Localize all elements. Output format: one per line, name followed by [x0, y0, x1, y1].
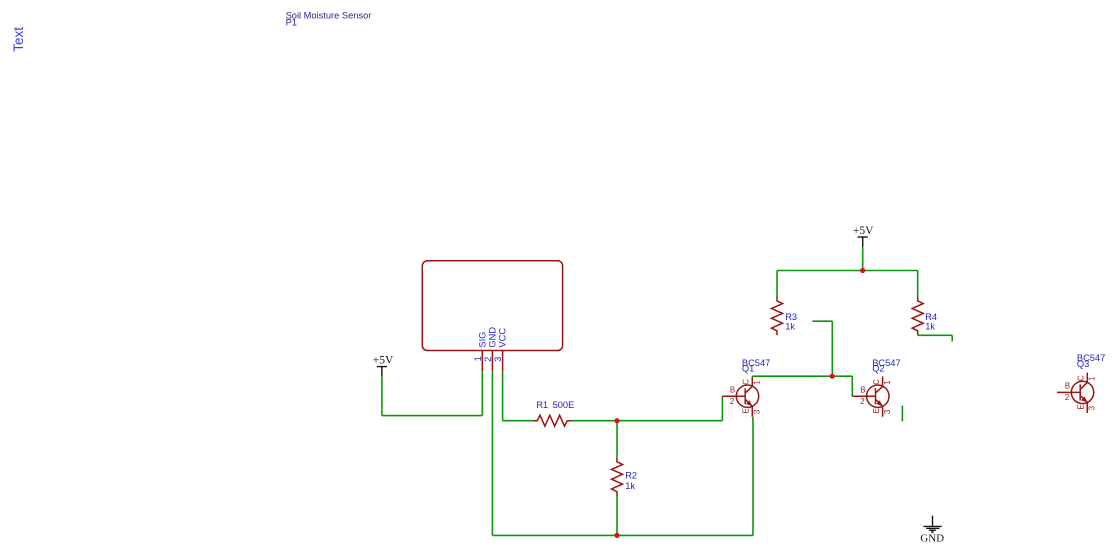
svg-text:C: C: [1077, 375, 1086, 381]
wire isolated segment right of Q2: [901, 406, 903, 422]
transistor Q3: [1057, 373, 1094, 413]
wire rail to Q1 emitter: [752, 417, 754, 536]
wire Q1 collector horizontal: [752, 375, 852, 377]
svg-text:1: 1: [753, 380, 762, 384]
wire R4 top: [917, 271, 919, 297]
svg-text:R4: R4: [925, 312, 937, 322]
svg-text:1: 1: [883, 380, 892, 384]
transistor Q1: [722, 376, 758, 416]
svg-text:R1: R1: [536, 400, 548, 410]
svg-text:R3: R3: [785, 312, 797, 322]
junction R2/rail node: [614, 533, 619, 538]
svg-text:GND: GND: [920, 533, 944, 545]
wire R4 stub down: [951, 335, 953, 341]
wire R2 top: [616, 421, 618, 458]
supply +5V top symbol: [858, 237, 868, 247]
svg-text:Q3: Q3: [1077, 359, 1089, 369]
wire R2 bottom: [616, 496, 618, 535]
svg-text:B: B: [1065, 382, 1070, 391]
svg-text:2: 2: [1065, 393, 1069, 402]
svg-text:3: 3: [1088, 406, 1097, 410]
resistor R1: [533, 415, 572, 426]
supply +5V left symbol: [377, 367, 387, 377]
svg-text:E: E: [1077, 404, 1086, 409]
svg-text:P1: P1: [286, 18, 297, 28]
svg-text:3: 3: [883, 410, 892, 414]
svg-text:VCC: VCC: [498, 328, 508, 348]
pin 3 stub: [502, 351, 504, 372]
svg-text:E: E: [742, 408, 751, 413]
connector P1 body: [422, 261, 562, 351]
svg-text:2: 2: [730, 397, 734, 406]
svg-text:C: C: [742, 379, 751, 385]
svg-text:E: E: [872, 408, 881, 413]
svg-text:Q1: Q1: [742, 364, 754, 374]
junction Q1 collector node: [830, 374, 835, 379]
svg-text:B: B: [860, 386, 865, 395]
svg-text:2: 2: [483, 357, 493, 362]
wire up to Q1 base: [721, 396, 723, 421]
svg-text:1k: 1k: [785, 322, 795, 332]
pin 2 stub: [491, 351, 493, 372]
wire +5V top down: [862, 247, 864, 271]
wire +5V rail horizontal: [777, 270, 918, 272]
svg-text:Text: Text: [11, 27, 26, 52]
svg-text:+5V: +5V: [853, 225, 874, 237]
svg-text:C: C: [872, 379, 881, 385]
svg-text:+5V: +5V: [373, 355, 394, 367]
wire stub down to junction: [831, 321, 833, 376]
wire stub horizontal upper: [812, 320, 832, 322]
wire +5V left horizontal: [382, 415, 482, 417]
svg-text:3: 3: [753, 410, 762, 414]
junction R1/R2 node: [614, 418, 619, 423]
svg-text:500E: 500E: [553, 400, 575, 410]
resistor R4: [912, 296, 923, 335]
svg-text:GND: GND: [488, 327, 498, 348]
svg-text:1: 1: [473, 356, 483, 361]
resistor R3: [772, 296, 783, 335]
wire pin3 to R1: [503, 420, 533, 422]
junction +5V rail node: [860, 268, 865, 273]
wire pin1 vertical: [481, 371, 483, 415]
wire bottom rail: [492, 534, 753, 536]
wire R4 bottom horizontal: [918, 334, 953, 336]
wire pin2 vertical: [491, 371, 493, 535]
wire R1 to Q1 base column: [572, 420, 723, 422]
resistor R2: [612, 457, 623, 496]
transistor Q2: [852, 376, 889, 416]
wire pin3 vertical: [502, 371, 504, 420]
wire R3 top: [776, 271, 778, 297]
svg-text:Q2: Q2: [872, 364, 884, 374]
svg-text:3: 3: [493, 357, 503, 362]
svg-text:1k: 1k: [625, 481, 635, 491]
ground GND symbol: [923, 516, 941, 532]
wire +5V left down: [381, 376, 383, 415]
svg-text:B: B: [730, 386, 735, 395]
wire down to Q2 base: [851, 376, 853, 396]
svg-text:Soil Moisture Sensor: Soil Moisture Sensor: [286, 11, 372, 21]
svg-text:2: 2: [860, 397, 864, 406]
svg-text:R2: R2: [625, 471, 637, 481]
pin 1 stub: [481, 351, 483, 372]
svg-text:1k: 1k: [925, 322, 935, 332]
svg-text:SIG: SIG: [477, 332, 487, 348]
svg-text:1: 1: [1088, 377, 1097, 381]
